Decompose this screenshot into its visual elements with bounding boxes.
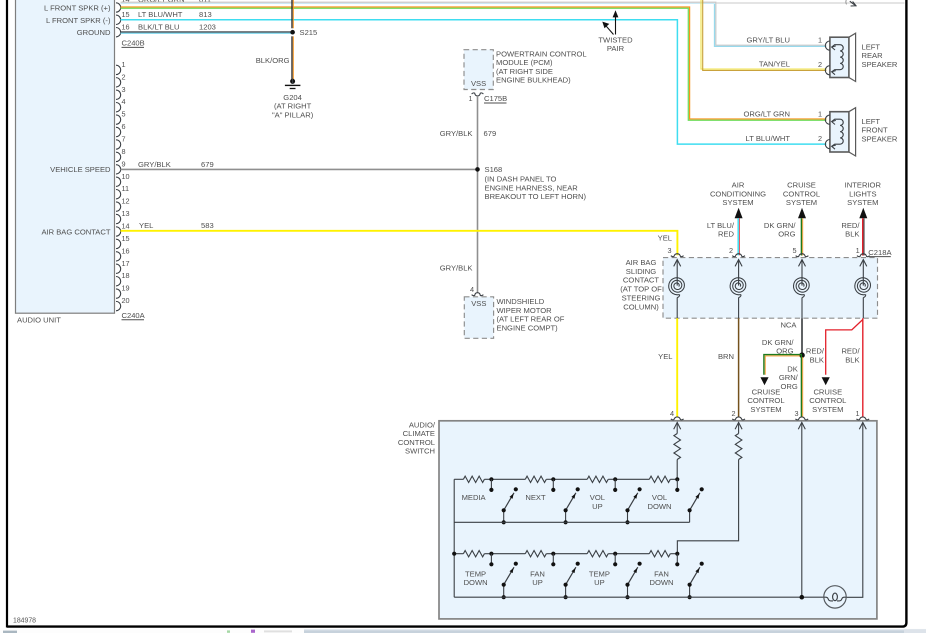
switch blade VOL DOWN	[647, 487, 703, 522]
wire 15 labels	[138, 10, 212, 19]
svg-text:BLK: BLK	[810, 355, 824, 364]
diagram id 184978	[13, 617, 36, 624]
svg-text:6: 6	[122, 122, 126, 131]
svg-text:C240A: C240A	[122, 311, 146, 320]
pin 16 arc C240B	[116, 23, 130, 37]
wire BLK/ORG from top	[292, 0, 293, 28]
svg-text:BLK/LT BLU: BLK/LT BLU	[138, 23, 180, 32]
svg-text:WINDSHIELD: WINDSHIELD	[497, 297, 545, 306]
svg-text:CONTROL: CONTROL	[783, 189, 820, 198]
svg-text:(IN DASH PANEL TO: (IN DASH PANEL TO	[485, 175, 557, 184]
svg-text:16: 16	[122, 246, 130, 255]
svg-text:17: 17	[122, 259, 130, 268]
svg-text:NEXT: NEXT	[525, 493, 546, 502]
svg-text:1203: 1203	[199, 23, 216, 32]
svg-text:2: 2	[731, 409, 735, 418]
svg-text:1: 1	[818, 36, 822, 45]
audio unit pin label GROUND	[77, 28, 111, 37]
resistor R1 (pin 4)	[674, 422, 681, 479]
svg-text:CONTROL: CONTROL	[747, 396, 784, 405]
svg-text:2: 2	[729, 246, 733, 255]
svg-text:RED/: RED/	[841, 347, 860, 356]
svg-text:1: 1	[122, 60, 126, 69]
svg-text:1: 1	[856, 409, 860, 418]
air bag sliding contact label	[620, 258, 662, 312]
pin 12 arc C240A	[116, 197, 130, 212]
switch NEXT contact stub	[551, 477, 555, 492]
svg-text:SYSTEM: SYSTEM	[722, 198, 753, 207]
svg-text:CLIMATE: CLIMATE	[403, 429, 435, 438]
wire GRY/BLK 679 horizontal (vehicle speed) pin 9	[121, 168, 478, 170]
pin 16 arc C240A	[116, 246, 130, 261]
svg-text:L FRONT SPKR (-): L FRONT SPKR (-)	[46, 16, 111, 25]
splice junction DK GRN/ORG	[799, 352, 805, 358]
svg-text:YEL: YEL	[658, 352, 672, 361]
svg-text:1: 1	[856, 246, 860, 255]
cruise control system label (left)	[747, 387, 784, 413]
pin 11 arc C240A	[116, 184, 129, 199]
svg-text:VSS: VSS	[471, 299, 486, 308]
audio unit pin label VEHICLE SPEED	[50, 165, 111, 174]
svg-text:CONDITIONING: CONDITIONING	[710, 189, 766, 198]
air bag sliding contact box U3	[663, 258, 878, 319]
svg-text:2: 2	[818, 134, 822, 143]
svg-text:5: 5	[122, 110, 126, 119]
wire YEL 583 (air bag contact) pin 14	[121, 231, 678, 256]
svg-text:UP: UP	[594, 578, 605, 587]
label TAN/YEL	[759, 60, 790, 69]
svg-text:VSS: VSS	[471, 79, 486, 88]
wire DK GRN/ORG branch to cruise control	[760, 355, 802, 386]
svg-text:LT BLU/: LT BLU/	[707, 221, 735, 230]
svg-text:SYSTEM: SYSTEM	[847, 198, 878, 207]
connector C240A	[122, 311, 146, 320]
switch TEMP UP contact stub	[613, 552, 617, 567]
svg-text:SWITCH: SWITCH	[405, 447, 435, 456]
wire ORG/LT GRN (L front spkr +) pin 14	[121, 7, 827, 120]
label YEL at corner	[658, 234, 672, 243]
twisted pair arrows	[598, 10, 633, 53]
svg-text:9: 9	[122, 159, 126, 168]
svg-text:SPEAKER: SPEAKER	[862, 60, 898, 69]
wire BLK/LT BLU 1203 (ground) pin 16	[121, 32, 293, 33]
interior lights system arrow	[845, 181, 882, 219]
wire TAN/YEL (L rear spkr -)	[701, 0, 826, 70]
row 1 resistor bus	[454, 476, 677, 482]
svg-text:GROUND: GROUND	[77, 28, 111, 37]
S168 description	[485, 175, 587, 201]
wire pin 3 to lamp bus	[801, 422, 803, 597]
label GRY/BLK upper	[440, 129, 496, 138]
svg-text:SYSTEM: SYSTEM	[812, 405, 843, 414]
svg-text:GRY/BLK: GRY/BLK	[138, 160, 171, 169]
switch MEDIA contact stub	[489, 477, 493, 492]
clockspring coil 1	[669, 260, 685, 319]
svg-text:3: 3	[122, 85, 126, 94]
row 2 bottom bus	[454, 596, 824, 598]
svg-text:DK: DK	[787, 364, 798, 373]
svg-text:2: 2	[818, 60, 822, 69]
svg-text:TWISTED: TWISTED	[598, 35, 633, 44]
wire DK GRN/ORG to pin 3	[801, 355, 802, 417]
svg-text:184978: 184978	[13, 617, 36, 624]
switch blade TEMP UP	[589, 562, 642, 600]
wire LT BLU/WHT 813 (L front spkr -) pin 15	[121, 20, 827, 144]
switch blade NEXT	[525, 487, 579, 524]
svg-text:CONTACT: CONTACT	[623, 276, 659, 285]
splice S215	[290, 28, 317, 37]
svg-text:TEMP: TEMP	[465, 569, 486, 578]
label DK GRN ORG vertical	[779, 364, 799, 390]
switch blade TEMP DOWN	[464, 562, 518, 600]
wire 9 labels	[138, 160, 214, 169]
svg-text:TAN/YEL: TAN/YEL	[759, 60, 790, 69]
pin 8 arc C240A	[116, 147, 126, 162]
svg-text:C175B: C175B	[484, 94, 507, 103]
cut speaker fragment top right	[846, 0, 856, 6]
switch TEMP DOWN contact stub	[489, 552, 493, 567]
pin 15 arc C240A	[116, 234, 130, 249]
splice S168	[475, 165, 502, 174]
svg-text:20: 20	[122, 296, 130, 305]
svg-text:GRY/LT BLU: GRY/LT BLU	[747, 35, 790, 44]
svg-text:UP: UP	[532, 578, 543, 587]
svg-text:MODULE (PCM): MODULE (PCM)	[496, 58, 553, 67]
pin 18 arc C240A	[116, 271, 130, 286]
switch blade FAN DOWN	[649, 562, 703, 600]
svg-text:(AT RIGHT: (AT RIGHT	[274, 102, 312, 111]
switch pin entry arrows	[674, 422, 867, 429]
cut-off element edge at top	[717, 2, 905, 4]
wire GRY/LT BLU (L rear spkr +)	[121, 2, 827, 46]
audio climate control switch box S1	[439, 421, 877, 619]
illumination lamp L1	[824, 586, 846, 608]
svg-text:SPEAKER: SPEAKER	[862, 134, 898, 143]
svg-text:VOL: VOL	[590, 493, 605, 502]
svg-text:7: 7	[122, 134, 126, 143]
svg-text:POWERTRAIN CONTROL: POWERTRAIN CONTROL	[496, 49, 587, 58]
svg-text:L FRONT SPKR (+): L FRONT SPKR (+)	[44, 4, 111, 13]
switch blade MEDIA	[462, 487, 518, 524]
svg-text:C240B: C240B	[122, 39, 145, 48]
pin 10 arc C240A	[116, 172, 130, 187]
svg-text:ENGINE HARNESS, NEAR: ENGINE HARNESS, NEAR	[485, 183, 579, 192]
pin 20 arc C240A	[116, 296, 130, 311]
label RED/BLK top	[841, 221, 860, 239]
label RED/BLK right	[841, 347, 860, 365]
svg-text:813: 813	[199, 10, 212, 19]
label DK GRN/ORG mid	[762, 338, 795, 355]
svg-text:16: 16	[122, 23, 130, 32]
svg-text:G204: G204	[283, 93, 302, 102]
wire 14 label (cut at top)	[122, 0, 212, 4]
svg-text:LT BLU/WHT: LT BLU/WHT	[746, 134, 791, 143]
switch connector pins 4 2 3 1	[670, 409, 869, 420]
audio unit pin label AIR BAG CONTACT	[41, 227, 110, 236]
pin 1 arc C240A	[116, 60, 126, 75]
air conditioning system arrow	[710, 181, 766, 219]
svg-text:S168: S168	[485, 165, 503, 174]
wire GRY/BLK 679 vertical	[477, 96, 479, 293]
svg-text:679: 679	[201, 160, 214, 169]
svg-text:UP: UP	[592, 502, 603, 511]
wire RED/BLK (pin 1)	[863, 218, 864, 255]
svg-text:FRONT: FRONT	[862, 126, 889, 135]
svg-text:LEFT: LEFT	[862, 42, 881, 51]
svg-text:679: 679	[484, 129, 497, 138]
wire pin 1 to lamp	[846, 422, 863, 597]
clockspring coil 3	[794, 260, 810, 319]
pin 3 arc C240A	[116, 85, 126, 100]
svg-text:INTERIOR: INTERIOR	[845, 181, 882, 190]
wiper pin 4	[470, 285, 483, 296]
left rear speaker pin 2	[818, 60, 830, 75]
svg-text:(AT TOP OF: (AT TOP OF	[620, 285, 662, 294]
svg-text:BLK: BLK	[845, 355, 859, 364]
svg-text:11: 11	[122, 184, 130, 193]
svg-text:ORG: ORG	[778, 230, 795, 239]
left front speaker SP2	[830, 108, 898, 156]
svg-text:GRY/BLK: GRY/BLK	[440, 129, 473, 138]
bottom scrollbar strip	[0, 629, 926, 633]
svg-text:18: 18	[122, 271, 130, 280]
row 1 left bus wire	[453, 479, 455, 597]
svg-text:BRN: BRN	[718, 352, 734, 361]
audio unit pin label L FRONT SPKR (-)	[46, 16, 111, 25]
connector C218A label	[868, 248, 892, 257]
row 1 bottom bus	[454, 521, 689, 523]
svg-text:SYSTEM: SYSTEM	[750, 405, 781, 414]
connector C240B	[122, 39, 145, 48]
svg-text:AIR BAG: AIR BAG	[626, 258, 657, 267]
wire 14 yel labels	[139, 221, 214, 230]
PCM description	[496, 49, 587, 84]
svg-text:4: 4	[470, 285, 474, 294]
svg-text:(AT LEFT REAR OF: (AT LEFT REAR OF	[497, 315, 565, 324]
svg-text:AIR: AIR	[732, 181, 745, 190]
svg-text:FAN: FAN	[654, 569, 669, 578]
svg-text:VEHICLE SPEED: VEHICLE SPEED	[50, 165, 111, 174]
label DK GRN/ORG top	[764, 221, 797, 239]
page left border	[6, 0, 8, 628]
svg-text:S215: S215	[300, 28, 318, 37]
switch VOL UP contact stub	[613, 477, 617, 492]
pin 13 arc C240A	[116, 209, 130, 224]
svg-text:VOL: VOL	[652, 493, 667, 502]
svg-text:10: 10	[122, 172, 130, 181]
wire BLK/ORG to ground	[256, 36, 294, 79]
svg-text:CRUISE: CRUISE	[813, 387, 842, 396]
connector C218A pins	[667, 246, 869, 257]
svg-text:NCA: NCA	[780, 320, 797, 329]
switch blade FAN UP	[530, 562, 580, 600]
clockspring coil 2	[730, 260, 746, 319]
svg-text:CRUISE: CRUISE	[752, 387, 781, 396]
PCM pin 1 / connector C175B	[468, 93, 507, 103]
svg-text:4: 4	[670, 409, 674, 418]
svg-text:2: 2	[122, 72, 126, 81]
audio climate control switch label	[398, 420, 436, 455]
label GRY/LT BLU	[747, 35, 790, 44]
svg-text:8: 8	[122, 147, 126, 156]
svg-text:15: 15	[122, 234, 130, 243]
wiper motor description	[497, 297, 565, 332]
pin 4 arc C240A	[116, 97, 126, 112]
left front speaker pin 2	[818, 134, 830, 149]
switch FAN DOWN contact stub	[675, 552, 679, 567]
svg-text:STEERING: STEERING	[622, 294, 661, 303]
svg-text:PAIR: PAIR	[607, 44, 625, 53]
svg-text:LEFT: LEFT	[862, 117, 881, 126]
svg-text:TEMP: TEMP	[589, 569, 610, 578]
svg-text:CONTROL: CONTROL	[809, 396, 846, 405]
svg-text:WIPER MOTOR: WIPER MOTOR	[497, 306, 553, 315]
svg-text:GRN/: GRN/	[779, 373, 799, 382]
svg-text:DOWN: DOWN	[649, 578, 673, 587]
svg-text:15: 15	[122, 10, 130, 19]
left rear speaker SP1	[830, 33, 898, 81]
label LT BLU/WHT	[746, 134, 791, 143]
svg-text:19: 19	[122, 284, 130, 293]
row 2 resistor bus	[454, 551, 677, 557]
svg-text:BREAKOUT TO LEFT HORN): BREAKOUT TO LEFT HORN)	[485, 192, 587, 201]
svg-text:BLK: BLK	[845, 230, 859, 239]
svg-text:ENGINE COMPT): ENGINE COMPT)	[497, 323, 559, 332]
audio unit A1	[16, 0, 115, 325]
switch blade VOL UP	[590, 487, 642, 524]
wire RED/BLK branch to cruise control	[822, 320, 863, 386]
svg-text:583: 583	[201, 221, 214, 230]
svg-text:3: 3	[667, 246, 671, 255]
pin 6 arc C240A	[116, 122, 126, 137]
wire BRN to pin 2	[718, 318, 739, 417]
ground G204	[272, 79, 314, 120]
svg-text:3: 3	[795, 409, 799, 418]
svg-text:14: 14	[122, 221, 130, 230]
svg-text:RED/: RED/	[841, 221, 860, 230]
svg-text:ORG: ORG	[780, 382, 797, 391]
svg-text:"A" PILLAR): "A" PILLAR)	[272, 110, 314, 119]
pin 14 arc C240B	[116, 3, 121, 12]
junction dot left bus row 2	[452, 552, 456, 556]
wire YEL to pin 4	[658, 318, 677, 417]
svg-text:YEL: YEL	[658, 234, 672, 243]
left front speaker pin 1	[818, 110, 830, 125]
svg-text:COLUMN): COLUMN)	[623, 302, 659, 311]
pin 15 arc C240B	[116, 10, 130, 24]
PCM module U2	[464, 50, 493, 90]
svg-text:C218A: C218A	[868, 248, 892, 257]
svg-text:1: 1	[468, 94, 472, 103]
wire DK GRN/ORG (pin 5)	[801, 218, 802, 255]
svg-text:ORG/LT GRN: ORG/LT GRN	[743, 110, 790, 119]
switch FAN UP contact stub	[551, 552, 555, 567]
left rear speaker pin 1	[818, 36, 830, 51]
svg-text:LIGHTS: LIGHTS	[849, 189, 876, 198]
cruise control system arrow (top)	[783, 181, 820, 219]
windshield wiper motor M1	[464, 297, 493, 339]
wire 16 labels	[138, 23, 216, 32]
wire LT BLU/RED	[738, 218, 739, 255]
svg-text:12: 12	[122, 197, 130, 206]
resistor R2 (pin 2) with wire to row 2	[677, 422, 742, 553]
svg-text:SLIDING: SLIDING	[626, 267, 656, 276]
svg-text:AIR BAG CONTACT: AIR BAG CONTACT	[41, 227, 110, 236]
pin 2 arc C240A	[116, 72, 126, 87]
svg-text:LT BLU/WHT: LT BLU/WHT	[138, 10, 183, 19]
svg-text:DOWN: DOWN	[647, 502, 671, 511]
svg-text:YEL: YEL	[139, 221, 153, 230]
svg-text:DK GRN/: DK GRN/	[764, 221, 797, 230]
audio unit pin label L FRONT SPKR (+)	[44, 4, 111, 13]
svg-text:ENGINE BULKHEAD): ENGINE BULKHEAD)	[496, 76, 571, 85]
svg-text:BLK/ORG: BLK/ORG	[256, 56, 290, 65]
svg-text:1: 1	[818, 110, 822, 119]
label RED/BLK branch	[806, 347, 825, 365]
svg-text:AUDIO UNIT: AUDIO UNIT	[17, 316, 61, 325]
svg-text:MEDIA: MEDIA	[462, 493, 487, 502]
svg-text:(AT RIGHT SIDE: (AT RIGHT SIDE	[496, 67, 553, 76]
svg-text:5: 5	[792, 246, 796, 255]
svg-text:RED/: RED/	[806, 347, 825, 356]
pin 19 arc C240A	[116, 284, 130, 299]
wire RED/BLK to pin 1	[862, 318, 864, 417]
svg-text:CONTROL: CONTROL	[398, 438, 435, 447]
clockspring coil 4	[855, 260, 871, 319]
svg-text:AUDIO/: AUDIO/	[409, 420, 436, 429]
label ORG/LT GRN	[743, 110, 790, 119]
pin 9 arc C240A	[116, 159, 126, 174]
svg-text:13: 13	[122, 209, 130, 218]
svg-text:FAN: FAN	[530, 569, 545, 578]
svg-text:REAR: REAR	[862, 51, 884, 60]
pin 7 arc C240A	[116, 134, 126, 149]
pin 17 arc C240A	[116, 259, 130, 274]
switch VOL DOWN contact stub	[675, 477, 679, 492]
svg-text:RED: RED	[718, 230, 735, 239]
label GRY/BLK lower	[440, 264, 473, 273]
svg-text:SYSTEM: SYSTEM	[786, 198, 817, 207]
cruise control system label (right)	[809, 387, 846, 413]
svg-text:GRY/BLK: GRY/BLK	[440, 264, 473, 273]
svg-text:CRUISE: CRUISE	[787, 181, 816, 190]
pin 5 arc C240A	[116, 110, 126, 125]
pin 14 arc C240A	[116, 221, 130, 236]
wire NCA	[780, 318, 802, 355]
svg-text:4: 4	[122, 97, 126, 106]
svg-text:DOWN: DOWN	[464, 578, 488, 587]
junction dot pin 3 bus	[800, 595, 805, 600]
label LT BLU/RED	[707, 221, 735, 239]
